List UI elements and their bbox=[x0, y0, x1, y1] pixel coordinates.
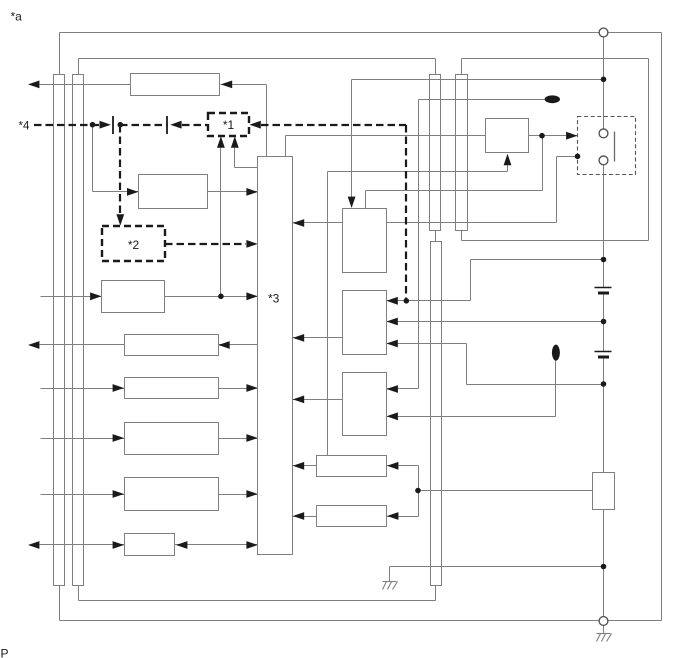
svg-text:*a: *a bbox=[11, 10, 23, 24]
svg-text:*2: *2 bbox=[128, 238, 140, 252]
svg-text:*3: *3 bbox=[268, 292, 280, 306]
svg-text:P: P bbox=[1, 647, 9, 658]
svg-text:*1: *1 bbox=[223, 118, 235, 132]
svg-text:*4: *4 bbox=[19, 121, 30, 133]
